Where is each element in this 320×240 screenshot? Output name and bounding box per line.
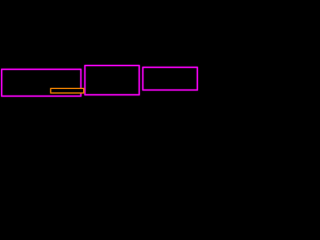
magenta block left (2, 69, 81, 96)
magenta block middle (85, 66, 139, 95)
magenta block right (143, 67, 198, 90)
orange box (black filled, overlaps left block) (51, 89, 84, 93)
